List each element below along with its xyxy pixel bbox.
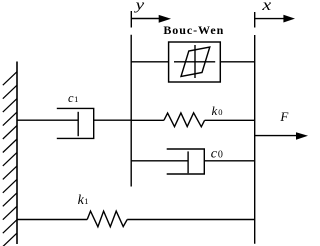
svg-text:c0: c0 [211,146,223,161]
svg-text:y: y [133,0,144,13]
svg-text:c1: c1 [68,91,78,105]
svg-text:Bouc-Wen: Bouc-Wen [163,23,224,37]
svg-text:F: F [279,109,289,124]
svg-text:x: x [261,0,271,13]
svg-text:k1: k1 [78,193,89,208]
svg-text:k0: k0 [212,103,223,118]
